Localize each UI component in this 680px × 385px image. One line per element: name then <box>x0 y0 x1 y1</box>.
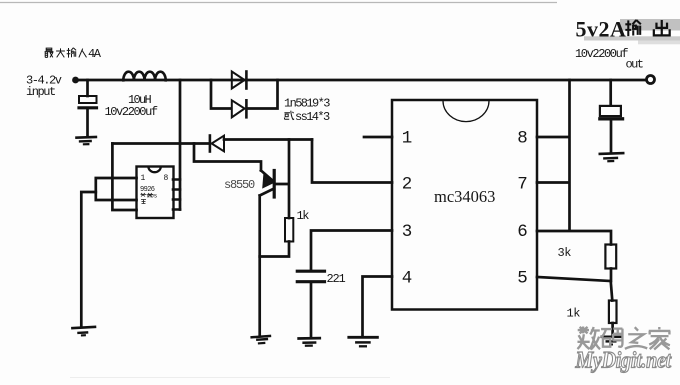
svg-text:8: 8 <box>517 129 528 149</box>
svg-text:3k: 3k <box>558 246 572 260</box>
svg-text:1k: 1k <box>297 209 310 223</box>
svg-text:mos: mos <box>147 193 158 200</box>
svg-text:8: 8 <box>164 174 169 183</box>
svg-text:ss14*3: ss14*3 <box>295 110 330 124</box>
svg-text:2: 2 <box>402 175 413 195</box>
svg-text:5v2A: 5v2A <box>576 17 627 42</box>
svg-text:4: 4 <box>402 269 413 289</box>
svg-text:5: 5 <box>517 269 528 289</box>
svg-text:3: 3 <box>402 222 413 242</box>
svg-text:6: 6 <box>517 222 528 242</box>
svg-text:1n5819*3: 1n5819*3 <box>284 97 330 111</box>
svg-text:1k: 1k <box>567 306 581 320</box>
svg-text:1: 1 <box>402 129 413 149</box>
svg-text:out: out <box>626 58 643 72</box>
svg-text:4A: 4A <box>88 47 102 61</box>
svg-text:MyDigit.net: MyDigit.net <box>575 347 672 373</box>
svg-text:10v2200uf: 10v2200uf <box>105 105 158 119</box>
svg-text:221: 221 <box>327 272 346 286</box>
svg-text:input: input <box>26 85 55 99</box>
svg-text:s8550: s8550 <box>224 178 255 192</box>
svg-text:1: 1 <box>141 174 146 183</box>
svg-text:mc34063: mc34063 <box>434 187 495 206</box>
svg-text:7: 7 <box>517 175 528 195</box>
svg-text:10v2200uf: 10v2200uf <box>575 47 628 61</box>
